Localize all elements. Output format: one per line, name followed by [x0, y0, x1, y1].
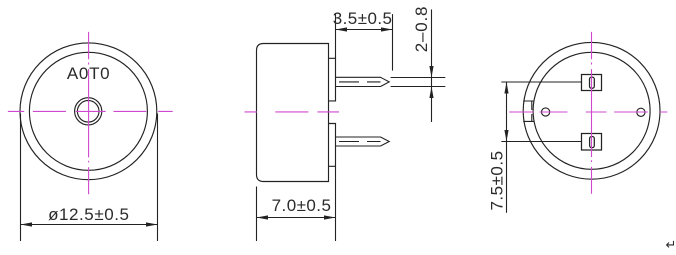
- dim 3.5 dimension line: [336, 29, 393, 31]
- dim 7.5 bottom arrow: [504, 130, 508, 142]
- pin top extension line: [391, 77, 446, 79]
- front view outer circle: [20, 43, 157, 180]
- back view inner circle: [533, 52, 650, 169]
- side view body: [257, 44, 329, 182]
- dim 7.0 right extension line: [335, 166, 337, 241]
- dim 2-0.8 upper arrow: [429, 66, 433, 78]
- dim 7.0 left extension line: [256, 187, 258, 242]
- svg-text:7.0±0.5: 7.0±0.5: [272, 196, 332, 215]
- dim 2-0.8 lower arrow: [429, 87, 433, 99]
- dim 7.5 top extension line: [501, 81, 581, 83]
- back view top pin pad: [582, 75, 602, 91]
- back view bottom pin pad: [582, 134, 602, 151]
- dim 7.0 left arrow: [257, 215, 269, 219]
- front view vertical centerline: [88, 32, 90, 194]
- back view notch: [523, 101, 534, 121]
- front view hole outer circle: [75, 98, 102, 125]
- svg-text:ø12.5±0.5: ø12.5±0.5: [48, 205, 129, 224]
- front view horizontal centerline: [8, 110, 173, 112]
- dim 7.5 bottom extension line: [501, 141, 581, 143]
- side view horizontal centerline: [245, 111, 340, 113]
- dim ø12.5 dimension line: [21, 224, 158, 226]
- side view bottom pin seam: [339, 141, 381, 143]
- side view top tab: [329, 58, 336, 101]
- side view bottom tab: [329, 124, 336, 167]
- side view top pin outline: [336, 77, 390, 86]
- dim ø12.5 right arrow: [146, 222, 158, 226]
- dim 3.5 right extension line: [392, 14, 394, 71]
- dim 7.5 dimension line: [506, 82, 508, 213]
- dim 3.5 left arrow: [336, 27, 348, 31]
- front view hole inner circle: [77, 101, 99, 123]
- dim 7.0 dimension line: [257, 217, 336, 219]
- svg-text:↵: ↵: [666, 237, 676, 252]
- dim 3.5 left extension line: [335, 14, 337, 58]
- back view left hole: [542, 108, 550, 116]
- dim 3.5 right arrow: [381, 27, 393, 31]
- back view top pin slot: [590, 77, 595, 88]
- dim ø12.5 left arrow: [21, 222, 33, 226]
- back view right hole: [637, 108, 645, 116]
- dim 7.0 right arrow: [324, 215, 336, 219]
- svg-text:2–0.8: 2–0.8: [412, 6, 431, 53]
- dim 2-0.8 dimension line: [431, 9, 433, 122]
- back view vertical centerline: [591, 32, 593, 194]
- dim 7.5 top arrow: [504, 82, 508, 94]
- dim ø12.5 right extension line: [157, 114, 159, 242]
- svg-text:3.5±0.5: 3.5±0.5: [333, 9, 393, 28]
- pin bottom extension line: [391, 86, 446, 88]
- front view inner circle: [29, 52, 147, 170]
- back view horizontal centerline: [509, 111, 667, 113]
- back view bottom pin slot: [590, 137, 595, 148]
- svg-text:A0T0: A0T0: [67, 64, 110, 83]
- side view top pin seam: [339, 81, 381, 83]
- svg-text:7.5±0.5: 7.5±0.5: [488, 150, 507, 210]
- dim ø12.5 left extension line: [20, 114, 22, 242]
- side view bottom pin outline: [336, 137, 390, 146]
- back view outer circle: [523, 42, 660, 179]
